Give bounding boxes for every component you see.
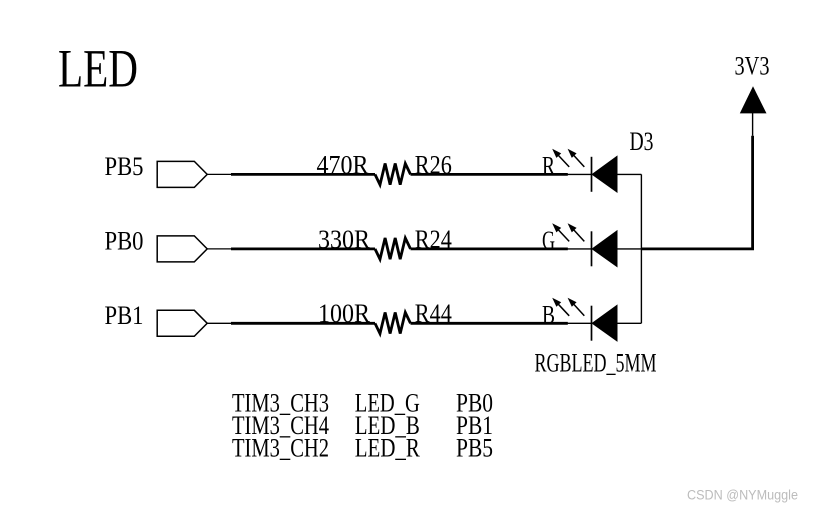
svg-text:B: B [542, 300, 555, 329]
wire [231, 247, 375, 250]
wire [411, 173, 568, 176]
svg-text:3V3: 3V3 [735, 52, 770, 81]
svg-text:G: G [542, 226, 555, 255]
svg-text:LED_R: LED_R [355, 434, 421, 463]
svg-text:PB5: PB5 [105, 152, 144, 181]
svg-text:RGBLED_5MM: RGBLED_5MM [535, 349, 657, 378]
wire [231, 322, 375, 325]
svg-text:TIM3_CH2: TIM3_CH2 [232, 434, 329, 463]
wire to 3V3 [641, 136, 752, 249]
port PB5 [157, 161, 231, 187]
svg-text:PB5: PB5 [456, 434, 493, 463]
node anode bus [640, 174, 642, 323]
power 3V3 [740, 86, 767, 136]
svg-text:LED: LED [58, 39, 138, 99]
port PB0 [157, 236, 231, 262]
LED diode D3 blue channel [552, 298, 641, 341]
LED diode D3 red channel [552, 149, 641, 192]
port PB1 [157, 310, 231, 336]
svg-text:R: R [542, 152, 555, 181]
wire [231, 173, 375, 176]
svg-text:100R: 100R [318, 299, 371, 328]
wire [411, 247, 568, 250]
svg-text:PB0: PB0 [105, 227, 144, 256]
resistor R24 [375, 238, 411, 259]
svg-text:470R: 470R [317, 150, 370, 179]
resistor R44 [375, 312, 411, 333]
svg-text:CSDN @NYMuggle: CSDN @NYMuggle [687, 488, 798, 503]
LED diode D3 green channel [552, 223, 641, 266]
resistor R26 [375, 164, 411, 185]
wire [411, 322, 568, 325]
svg-text:330R: 330R [318, 225, 371, 254]
svg-text:PB1: PB1 [105, 301, 144, 330]
svg-text:D3: D3 [630, 127, 654, 156]
